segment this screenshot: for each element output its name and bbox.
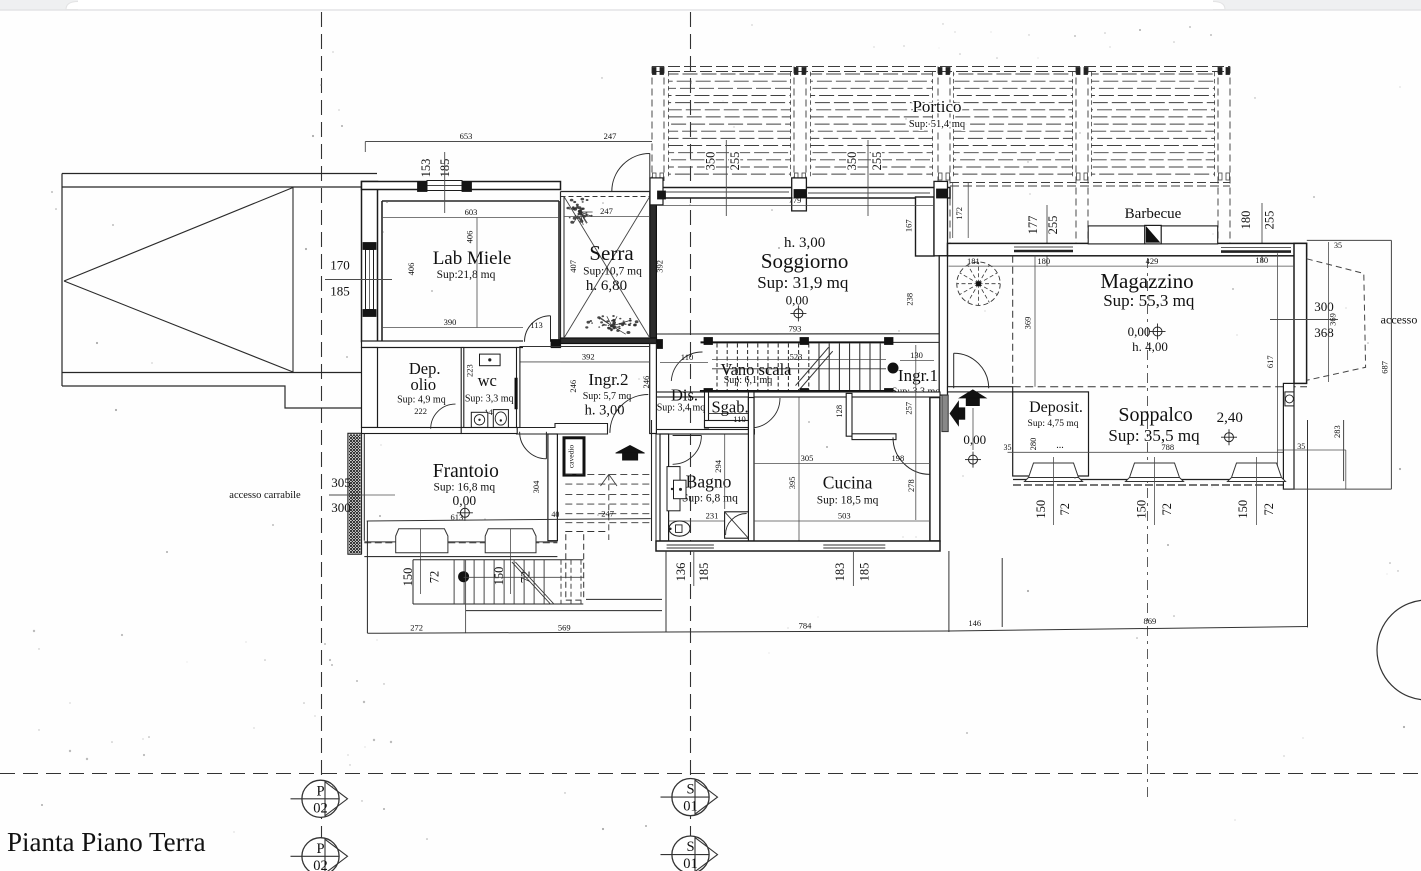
wc bottom sinks	[471, 412, 488, 427]
svg-text:Soggiorno: Soggiorno	[761, 249, 849, 273]
wall band south of stair hall	[656, 392, 940, 397]
lower right step	[1277, 449, 1345, 451]
Sgab inner line	[709, 413, 749, 415]
Soppalco vents	[1025, 463, 1083, 482]
stair treads Vano scala	[716, 344, 718, 391]
svg-text:368: 368	[1314, 325, 1334, 340]
svg-text:wc: wc	[478, 371, 497, 390]
svg-text:395: 395	[787, 477, 797, 490]
Ingr.2 floor line	[519, 361, 649, 363]
svg-text:01: 01	[683, 799, 698, 815]
svg-text:h. 4,00: h. 4,00	[1132, 339, 1168, 354]
svg-text:272: 272	[410, 623, 423, 633]
portico roof top edge	[652, 66, 1230, 68]
wall south of Ingr.1	[948, 387, 1013, 392]
Magazzino top wall	[948, 243, 1307, 255]
Magazzino top wall windows	[1014, 250, 1073, 253]
Serra plants	[578, 213, 581, 215]
svg-text:223: 223	[465, 364, 475, 377]
svg-text:136: 136	[674, 563, 688, 582]
svg-text:P: P	[316, 783, 324, 799]
svg-text:305: 305	[331, 475, 351, 490]
section marker P02 upper	[302, 780, 339, 817]
svg-text:Serra: Serra	[589, 241, 634, 265]
Frantoio floor step line	[367, 519, 651, 521]
svg-text:222: 222	[414, 406, 427, 416]
svg-text:Sup: 4,75 mq: Sup: 4,75 mq	[1028, 419, 1079, 429]
yard bottom line right	[949, 627, 1308, 632]
svg-text:150: 150	[1034, 500, 1048, 519]
svg-text:Sup: 6,1 mq: Sup: 6,1 mq	[724, 375, 773, 386]
svg-text:Ingr.2: Ingr.2	[588, 370, 628, 389]
svg-text:accesso carrabile: accesso carrabile	[229, 490, 301, 501]
svg-text:170: 170	[330, 258, 350, 273]
yard lines under stairs	[586, 598, 662, 600]
Cucina dim 257	[915, 345, 917, 520]
Bagno east wall / Cucina divider	[748, 398, 754, 542]
svg-text:130: 130	[910, 350, 923, 360]
down stair treads	[453, 560, 455, 604]
door arc Bagno	[673, 436, 702, 465]
Frantoio press 1	[396, 529, 448, 553]
garage bottom inner	[62, 372, 362, 374]
svg-text:h. 3,00: h. 3,00	[585, 403, 625, 419]
Bagno dim 231	[669, 520, 749, 522]
svg-text:72: 72	[1262, 503, 1276, 516]
garage left wall	[61, 174, 63, 387]
Frantoio survey point	[460, 508, 469, 517]
svg-text:300: 300	[1314, 299, 1334, 314]
svg-text:255: 255	[870, 152, 884, 171]
svg-text:392: 392	[582, 352, 595, 362]
Barbecue counter	[1088, 226, 1218, 244]
door arc Frantoio	[520, 432, 547, 459]
Deposit room	[1013, 392, 1089, 476]
svg-text:S: S	[686, 782, 694, 798]
yard step right	[1343, 420, 1345, 481]
svg-text:523: 523	[790, 352, 803, 362]
svg-text:128: 128	[834, 405, 844, 418]
portico posts	[651, 67, 653, 182]
wc door black tick	[515, 378, 518, 409]
arrow up at Ingr.1	[960, 390, 987, 398]
svg-text:113: 113	[530, 320, 542, 330]
portico lower chord dashed	[950, 182, 1230, 184]
svg-text:72: 72	[428, 571, 442, 584]
Lab Miele inner faces	[382, 200, 559, 202]
Barbecue stove	[1145, 225, 1162, 244]
svg-text:cavedio: cavedio	[567, 445, 576, 469]
svg-text:788: 788	[1161, 442, 1174, 452]
accesso outer boundary	[1390, 240, 1392, 489]
top dim line	[365, 141, 652, 143]
Soggiorno floor line south	[657, 333, 939, 335]
portico roof hatching	[668, 73, 791, 75]
svg-text:02: 02	[313, 800, 328, 816]
svg-text:P: P	[316, 841, 324, 857]
Magazzino dim 369	[1034, 256, 1036, 387]
svg-text:Sup: 3,4 mq: Sup: 3,4 mq	[657, 403, 706, 414]
wc bottom wall	[461, 428, 517, 434]
svg-text:02: 02	[313, 858, 328, 871]
Lab Miele dim 390	[382, 327, 523, 329]
Ingr.1 column dot	[888, 363, 899, 374]
dim 369 right	[1327, 242, 1329, 382]
wall band above Bagno	[656, 430, 754, 435]
down stair newel dot	[458, 571, 469, 582]
svg-text:0,00: 0,00	[963, 432, 986, 447]
svg-text:255: 255	[1046, 216, 1060, 235]
yard bottom line mid	[666, 631, 949, 632]
corridor east wall	[651, 420, 653, 541]
terrace verticals	[665, 551, 667, 632]
Serra east wall	[650, 192, 657, 339]
Bagno west wall	[660, 434, 669, 541]
svg-text:Cucina: Cucina	[823, 473, 873, 493]
svg-text:Ingr.1: Ingr.1	[898, 366, 938, 385]
svg-text:S: S	[686, 839, 694, 855]
Serra door arc	[612, 154, 650, 192]
svg-text:Frantoio: Frantoio	[433, 461, 499, 482]
east lower wall	[1283, 383, 1294, 489]
yard left vertical	[366, 521, 368, 633]
stair hall top wall	[701, 341, 894, 343]
svg-text:Pianta Piano Terra: Pianta Piano Terra	[7, 827, 206, 857]
accesso ramp dashed	[1307, 259, 1366, 381]
svg-text:283: 283	[1332, 425, 1342, 438]
east wall fixture	[1285, 392, 1294, 406]
stair band black posts	[704, 338, 713, 345]
section centerline P vertical	[321, 12, 323, 871]
svg-text:503: 503	[838, 511, 851, 521]
door arc Dep olio	[431, 404, 456, 429]
garage outline top	[62, 173, 377, 175]
Frantoio south wall bottom	[364, 556, 557, 558]
svg-text:Magazzino: Magazzino	[1100, 269, 1193, 293]
Cucina dim 305	[754, 463, 930, 465]
svg-text:Sup: 55,3 mq: Sup: 55,3 mq	[1103, 291, 1195, 310]
Magazzino left dashed boundary	[1012, 256, 1014, 387]
Bagno sink	[667, 467, 680, 511]
Frantoio east wall	[548, 434, 558, 541]
svg-text:01: 01	[683, 856, 698, 871]
svg-text:Sup: 18,5 mq: Sup: 18,5 mq	[817, 495, 879, 507]
wall Dep olio / wc	[461, 348, 464, 428]
svg-text:231: 231	[706, 511, 719, 521]
svg-text:150: 150	[1135, 500, 1149, 519]
Sgab right wall	[748, 392, 754, 428]
svg-text:Soppalco: Soppalco	[1118, 404, 1192, 426]
dim 35 788	[1008, 451, 1295, 453]
svg-text:238: 238	[904, 293, 914, 306]
door arc Dis	[671, 352, 702, 381]
svg-text:869: 869	[1144, 616, 1157, 626]
Ingr.1 door arc	[954, 353, 989, 388]
svg-text:653: 653	[460, 131, 473, 141]
svg-text:406: 406	[406, 263, 416, 276]
centerline through Magazzino vertical	[1147, 250, 1149, 798]
section marker S01 upper	[672, 779, 709, 816]
svg-text:255: 255	[1263, 211, 1277, 230]
horizontal section centerline	[0, 773, 1421, 775]
svg-text:407: 407	[568, 260, 578, 273]
Lab Miele dim 406 line	[476, 218, 478, 328]
svg-text:784: 784	[799, 621, 813, 631]
svg-text:779: 779	[789, 195, 802, 205]
Magazzino east wall	[1294, 243, 1307, 383]
portico pillar on Soggiorno wall	[792, 178, 807, 211]
svg-text:185: 185	[330, 284, 350, 299]
svg-text:406: 406	[465, 231, 475, 244]
svg-text:150: 150	[1236, 500, 1250, 519]
svg-text:153: 153	[419, 159, 433, 178]
svg-text:72: 72	[1058, 503, 1072, 516]
svg-text:0,00: 0,00	[786, 293, 809, 308]
dim tick vertical 272-569	[465, 560, 467, 633]
svg-text:390: 390	[444, 317, 457, 327]
stair hall bottom wall	[701, 391, 894, 396]
svg-text:569: 569	[558, 623, 571, 633]
svg-text:429: 429	[1146, 256, 1159, 266]
Frantoio south wall top	[364, 541, 557, 543]
wall between Lab Miele and Dep.olio row	[362, 341, 561, 348]
svg-text:h. 6,80: h. 6,80	[586, 278, 627, 294]
door arc Sgab	[750, 398, 780, 428]
svg-text:Sup: 6,8 mq: Sup: 6,8 mq	[682, 493, 738, 505]
cavedio box	[564, 438, 584, 475]
svg-text:369: 369	[1328, 313, 1338, 326]
window 170/185 in west wall	[366, 250, 374, 310]
svg-text:Sup:21,8 mq: Sup:21,8 mq	[437, 269, 496, 281]
Soppalco south wall lines	[1013, 479, 1283, 481]
Cucina door arc	[893, 437, 930, 474]
wall north (Lab Miele)	[362, 182, 561, 190]
Serra top glazing	[561, 191, 651, 193]
Serra dim 247	[564, 216, 650, 218]
svg-text:Sup: 4,9 mq: Sup: 4,9 mq	[397, 395, 446, 406]
svg-text:accesso: accesso	[1381, 313, 1418, 327]
Cucina wall stub horizontal	[852, 434, 896, 440]
svg-text:olio: olio	[410, 375, 436, 394]
svg-text:278: 278	[906, 479, 916, 492]
Serra west wall	[560, 192, 562, 339]
Ingr.1 threshold bar	[942, 395, 948, 432]
Cucina dim 503	[754, 520, 930, 522]
svg-text:185: 185	[857, 563, 871, 582]
south wall Bagno Cucina	[656, 541, 940, 551]
svg-text:Sup: 31,9 mq: Sup: 31,9 mq	[757, 273, 849, 292]
window 153/185 in north wall	[427, 181, 462, 191]
svg-text:246: 246	[641, 376, 651, 389]
Soggiorno east wall	[916, 197, 935, 256]
Serra dim 392 south	[561, 361, 650, 363]
svg-text:Sup: 16,8 mq: Sup: 16,8 mq	[433, 482, 495, 494]
svg-text:0,00: 0,00	[452, 493, 476, 508]
understair walls dashed	[565, 534, 567, 600]
svg-text:110: 110	[733, 414, 745, 424]
svg-text:180: 180	[1255, 255, 1268, 265]
svg-text:110: 110	[681, 352, 693, 362]
svg-text:305: 305	[801, 453, 814, 463]
Cucina east wall	[930, 398, 940, 542]
svg-text:294: 294	[713, 459, 723, 473]
svg-text:0,00: 0,00	[1128, 324, 1151, 339]
svg-text:247: 247	[604, 131, 617, 141]
Bagno toilet	[669, 521, 690, 536]
Soggiorno north wall	[656, 188, 950, 199]
section marker S01 lower	[672, 836, 709, 871]
svg-text:198: 198	[892, 453, 905, 463]
spiral staircase	[957, 262, 1000, 305]
svg-text:247: 247	[600, 206, 613, 216]
Frantoio west wall line	[361, 434, 363, 555]
stair diagonal break line	[796, 347, 829, 385]
Serra diagonals	[564, 197, 650, 339]
Dep olio west wall segment	[362, 348, 378, 428]
top window chrome strip	[0, 0, 1421, 10]
dim 617	[1276, 253, 1278, 481]
section marker P02 lower	[302, 838, 339, 871]
svg-text:Barbecue: Barbecue	[1125, 206, 1182, 222]
svg-text:180: 180	[1239, 211, 1253, 230]
svg-text:280: 280	[1028, 438, 1038, 451]
svg-text:Portico: Portico	[912, 97, 961, 116]
svg-text:257: 257	[904, 402, 914, 415]
svg-text:392: 392	[654, 260, 664, 273]
press tick lines	[420, 529, 422, 594]
corridor wall right of Soggiorno	[934, 181, 948, 255]
garage bottom outer with step	[62, 386, 362, 408]
svg-text:Sup: 3,3 mq: Sup: 3,3 mq	[465, 394, 514, 405]
Cucina dim 395	[798, 398, 800, 542]
svg-text:Deposit.: Deposit.	[1029, 399, 1083, 416]
svg-text:183: 183	[833, 563, 847, 582]
Frantoio press 2	[485, 529, 536, 553]
svg-text:172: 172	[954, 207, 964, 220]
svg-text:255: 255	[728, 152, 742, 171]
south windows	[667, 542, 714, 550]
Dep olio bottom wall	[362, 428, 462, 434]
svg-text:300: 300	[331, 500, 351, 515]
scan noise	[903, 45, 904, 46]
section centerline S vertical	[690, 12, 692, 871]
Dis Sgab divider	[705, 392, 709, 428]
corridor stair arrow	[608, 474, 610, 540]
svg-text:246: 246	[568, 380, 578, 393]
Sgab bottom wall	[705, 421, 755, 428]
svg-text:793: 793	[789, 324, 802, 334]
arrow left at Ingr.1	[950, 402, 959, 426]
svg-text:350: 350	[845, 152, 859, 171]
Soggiorno survey point	[794, 309, 803, 318]
svg-text:304: 304	[531, 480, 541, 494]
Magazzino dim line 181-180-429-180	[949, 265, 1294, 267]
svg-text:Lab Miele: Lab Miele	[433, 248, 512, 269]
wc top sink	[480, 354, 501, 366]
garage ramp triangle	[64, 188, 293, 373]
Bagno shower	[725, 512, 749, 538]
Frantoio hatched wall	[348, 433, 361, 554]
Lab Miele dim 603	[382, 217, 559, 219]
svg-text:...: ...	[1056, 440, 1064, 451]
svg-text:40: 40	[551, 510, 559, 519]
svg-text:617: 617	[1265, 355, 1275, 368]
Soppalco dashed boundary	[1013, 386, 1307, 388]
svg-text:Sup: 35,5 mq: Sup: 35,5 mq	[1108, 426, 1200, 445]
svg-text:72: 72	[1160, 503, 1174, 516]
svg-text:Sup: 51,4 mq: Sup: 51,4 mq	[909, 119, 966, 130]
svg-text:Sup:10,7 mq: Sup:10,7 mq	[583, 266, 642, 278]
Soggiorno dim 779	[657, 205, 933, 207]
svg-text:247: 247	[601, 509, 614, 519]
corridor dashed stairs	[565, 473, 651, 475]
large circle arc bottom right	[1377, 600, 1421, 700]
door arc Lab Miele south	[525, 316, 551, 342]
svg-text:146: 146	[968, 618, 981, 628]
stepped wall under Ingr.2	[517, 424, 608, 435]
svg-text:35: 35	[1004, 443, 1012, 452]
Soggiorno west post	[650, 178, 663, 205]
Serra bottom wall	[561, 338, 657, 344]
svg-text:35: 35	[1334, 241, 1342, 250]
svg-text:177: 177	[1026, 216, 1040, 235]
svg-text:185: 185	[697, 563, 711, 582]
Ingr.2 right wall	[650, 344, 657, 434]
door arc Ingr.2 south	[610, 395, 648, 433]
wall wc / Ingr.2	[517, 348, 520, 428]
yard bottom line left	[367, 632, 666, 633]
Cucina wall stub	[846, 393, 852, 436]
svg-text:180: 180	[1037, 256, 1050, 266]
svg-text:181: 181	[967, 256, 980, 266]
svg-text:603: 603	[465, 207, 478, 217]
svg-text:369: 369	[1023, 317, 1033, 330]
svg-text:687: 687	[1380, 361, 1390, 374]
svg-text:167: 167	[903, 219, 913, 232]
down stair band	[413, 559, 583, 561]
Serra corner posts	[551, 340, 560, 348]
svg-text:350: 350	[704, 152, 718, 171]
door gap Lab Miele south	[523, 340, 551, 349]
arrow up near cavedio	[616, 446, 645, 454]
Soggiorno north wall sills	[666, 191, 789, 193]
yard right verticals	[1001, 558, 1003, 627]
svg-text:Sup: 5,7 mq: Sup: 5,7 mq	[583, 391, 632, 402]
wall west outer (Lab Miele)	[362, 182, 378, 342]
svg-text:2,40: 2,40	[1217, 410, 1243, 426]
